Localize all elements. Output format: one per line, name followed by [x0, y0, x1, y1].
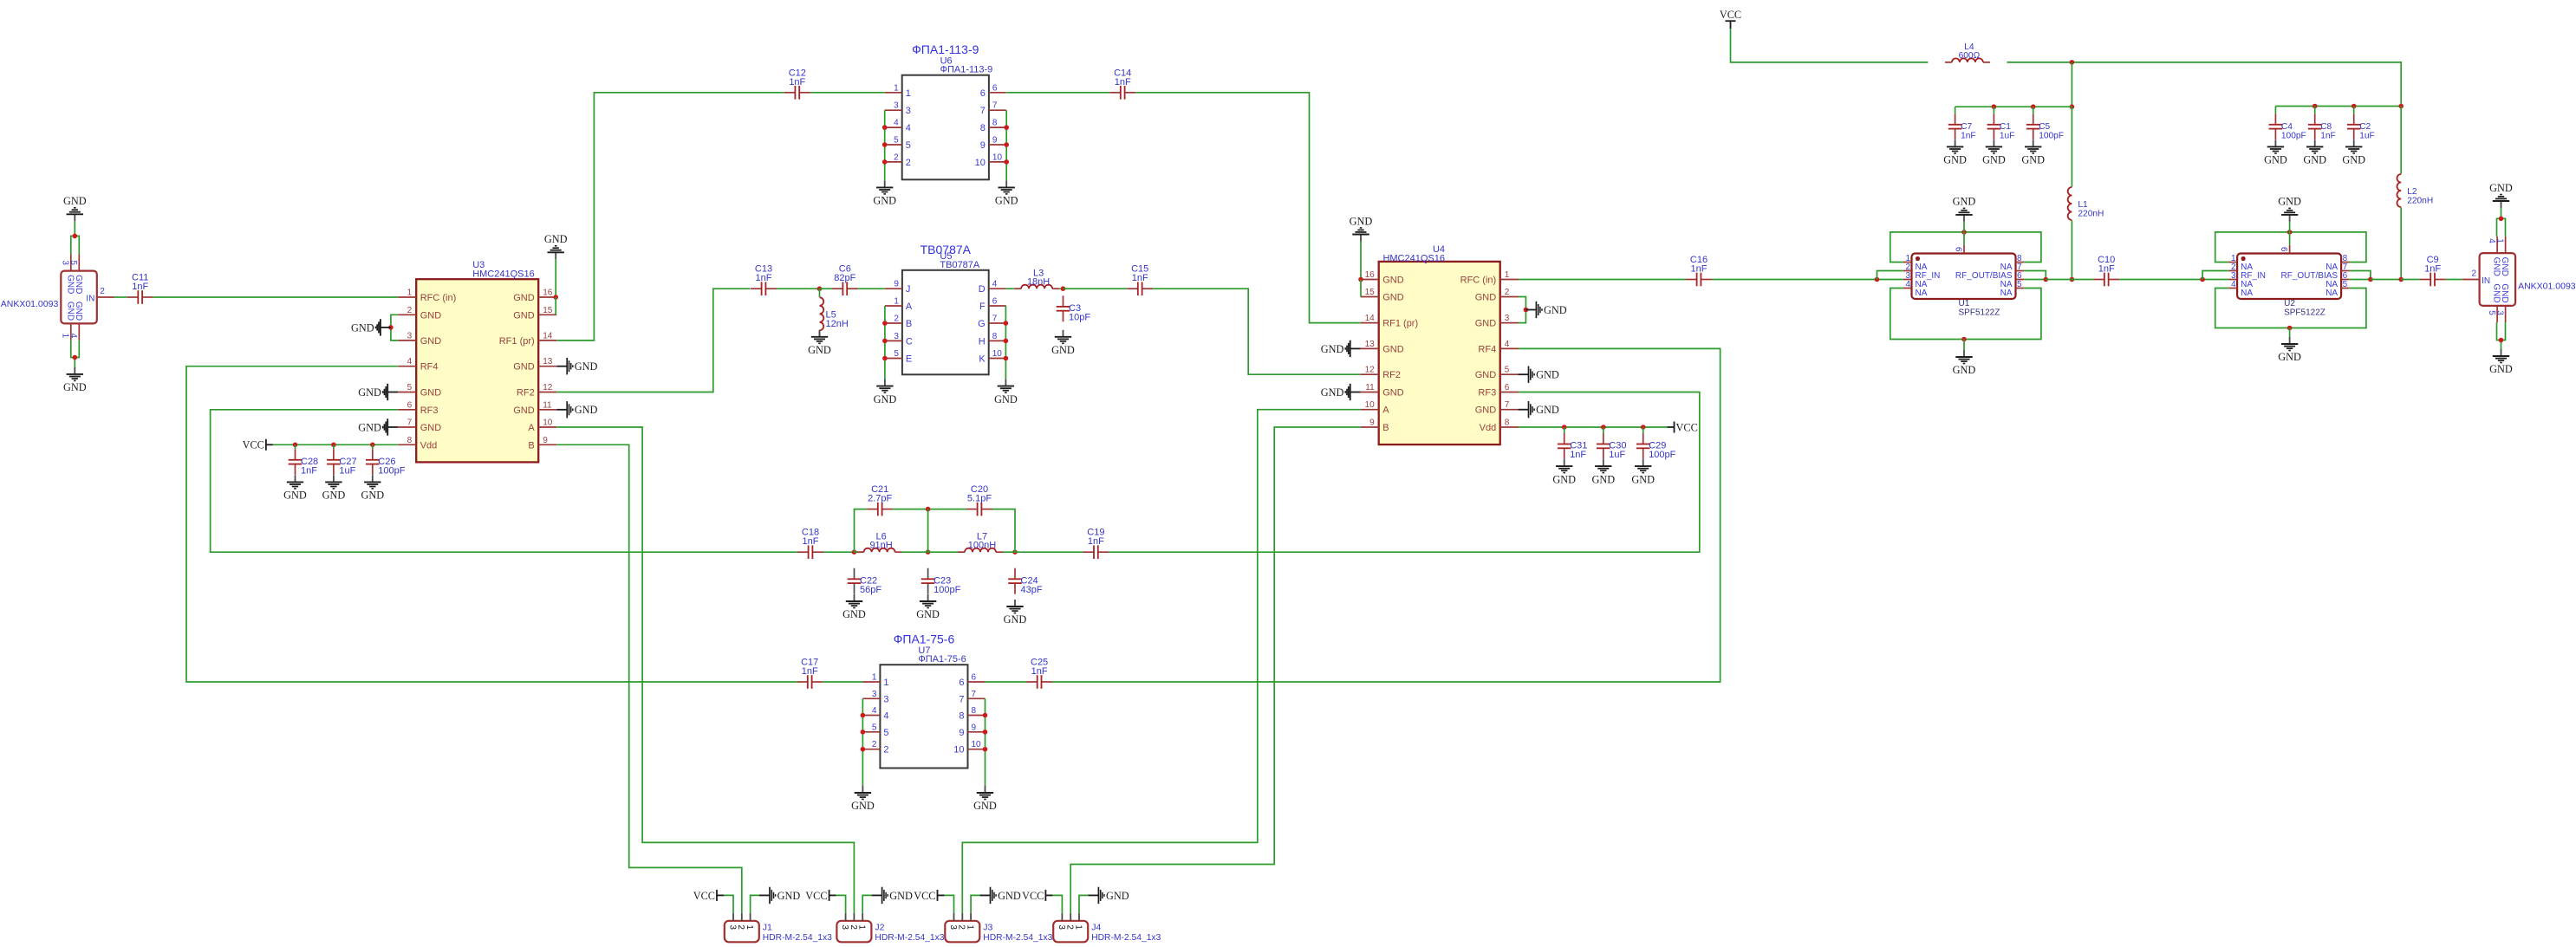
svg-text:11: 11 [1365, 383, 1375, 392]
junction U7 right tie [983, 730, 988, 735]
capacitor C4 [2269, 114, 2306, 140]
svg-text:10: 10 [975, 158, 986, 168]
wire U4 B to J4 pin2 [1070, 427, 1361, 913]
wire U6 left gnd tie [884, 110, 886, 180]
svg-text:K: K [979, 354, 986, 365]
IC U5 TB0787A [885, 243, 1006, 375]
svg-text:GND: GND [1106, 890, 1129, 902]
IC U3 HMC241QS16 [398, 260, 556, 462]
svg-text:1: 1 [906, 88, 911, 99]
svg-text:3: 3 [1057, 924, 1066, 930]
svg-text:1nF: 1nF [301, 465, 317, 476]
ground GND below C1 [1982, 139, 2006, 165]
svg-text:10: 10 [543, 418, 553, 428]
svg-text:NA: NA [2000, 289, 2013, 298]
capacitor C2 [2347, 114, 2375, 140]
svg-text:RF2: RF2 [1382, 370, 1401, 380]
ground GND at U3 pin13 [556, 358, 597, 374]
svg-text:GND: GND [998, 890, 1021, 902]
wire P1 bottom pins to gnd [71, 341, 75, 358]
svg-text:C1: C1 [2000, 122, 2011, 132]
svg-text:9: 9 [1955, 247, 1965, 252]
svg-text:GND: GND [283, 490, 307, 502]
ground U5 left GND [874, 379, 897, 405]
wire L2 tap to C9 [2401, 279, 2419, 281]
capacitor C5 [2026, 114, 2064, 140]
svg-text:NA: NA [1916, 289, 1928, 298]
svg-text:5: 5 [894, 349, 899, 359]
svg-text:1: 1 [894, 83, 899, 93]
power VCC VCC at U3 Vdd [243, 439, 273, 451]
wire VCC to U3 pin8 [273, 444, 398, 445]
wire U3 pin2-pin3 tie [391, 315, 398, 341]
ground U1 bottom GND [1953, 350, 1976, 376]
svg-text:6: 6 [972, 673, 977, 683]
svg-text:GND: GND [513, 293, 535, 303]
svg-text:GND: GND [973, 800, 997, 812]
ground GND below C4 [2264, 139, 2287, 165]
svg-text:VCC: VCC [243, 439, 264, 451]
svg-text:GND: GND [842, 608, 866, 620]
ground GND below C28 [283, 475, 307, 501]
svg-text:GND: GND [420, 336, 442, 347]
svg-text:5: 5 [894, 136, 899, 146]
junction L5 tap [817, 286, 823, 291]
svg-text:ФПА1-113-9: ФПА1-113-9 [912, 42, 979, 56]
svg-text:Vdd: Vdd [420, 440, 438, 451]
wire J4 pin3 to VCC [1052, 895, 1062, 913]
svg-text:C2: C2 [2359, 122, 2371, 132]
wire J3 pin1 to GND [971, 895, 979, 913]
wire P1 top pins to gnd [71, 236, 75, 254]
svg-text:82pF: 82pF [834, 273, 855, 283]
svg-text:RF2: RF2 [517, 388, 535, 399]
svg-text:15: 15 [1365, 288, 1376, 297]
wire C15 to U4 RF2 [1153, 289, 1361, 374]
svg-text:1nF: 1nF [132, 282, 148, 292]
capacitor C6 [832, 264, 858, 295]
wire C16 to U1 [1712, 279, 1903, 281]
svg-text:J4: J4 [1091, 923, 1101, 933]
svg-text:L2: L2 [2407, 187, 2417, 197]
capacitor C31 [1558, 433, 1587, 460]
svg-text:L1: L1 [2078, 200, 2088, 210]
svg-text:10: 10 [992, 349, 1003, 359]
wire top tap down [927, 509, 929, 553]
svg-text:NA: NA [2241, 289, 2253, 298]
svg-text:13: 13 [543, 357, 553, 366]
svg-text:GND: GND [65, 302, 75, 321]
capacitor C27 [327, 449, 356, 476]
svg-text:13: 13 [1365, 340, 1376, 349]
svg-text:10pF: 10pF [1069, 313, 1090, 323]
svg-text:1uF: 1uF [1609, 450, 1625, 460]
junction U7 left tie [861, 730, 866, 735]
svg-text:B: B [528, 440, 534, 451]
ground GND at J3 [980, 887, 1021, 904]
wire U2 pin1 loop [2215, 232, 2366, 263]
capacitor C23 [921, 568, 961, 595]
svg-text:2: 2 [736, 924, 745, 930]
svg-text:3: 3 [894, 101, 899, 111]
svg-text:3: 3 [727, 924, 737, 930]
wire U2 bottom gnd stem [2289, 328, 2291, 338]
junction U2 bottom tap [2287, 326, 2293, 331]
svg-text:3: 3 [2495, 310, 2504, 315]
wire U4 pin16 to GND [1360, 242, 1362, 280]
svg-text:GND: GND [420, 388, 442, 399]
capacitor C22 [848, 568, 882, 595]
svg-text:4: 4 [2487, 238, 2496, 243]
junction U2 top tap [2287, 230, 2293, 235]
svg-text:GND: GND [65, 275, 75, 294]
svg-text:1: 1 [872, 673, 877, 683]
svg-text:1nF: 1nF [802, 666, 818, 677]
svg-text:GND: GND [2492, 283, 2501, 302]
wire N3 to C19 [1015, 551, 1083, 553]
svg-text:ANKX01.0093: ANKX01.0093 [2518, 282, 2576, 292]
power VCC VCC at J1 [693, 890, 724, 902]
svg-text:3: 3 [1505, 314, 1510, 323]
ground P2 top GND [2489, 182, 2513, 208]
wire P2 top pin1 [2501, 208, 2506, 237]
wire C8 lead [2314, 107, 2316, 114]
svg-text:GND: GND [1475, 293, 1497, 303]
junction U2 out tie [2368, 277, 2373, 282]
svg-text:GND: GND [1953, 364, 1976, 376]
ground GND below C2 [2342, 139, 2365, 165]
svg-text:10: 10 [953, 745, 964, 756]
svg-text:GND: GND [1051, 344, 1075, 356]
svg-text:9: 9 [543, 436, 548, 445]
svg-text:GND: GND [2500, 283, 2509, 302]
svg-text:1: 1 [2495, 238, 2504, 243]
power VCC VCC at J2 [805, 890, 836, 902]
svg-text:8: 8 [1505, 418, 1510, 428]
svg-text:GND: GND [994, 393, 1018, 405]
wire U5 right gnd tie [1005, 306, 1006, 379]
svg-text:ANKX01.0093: ANKX01.0093 [1, 299, 59, 309]
wire U3 RF1 to C12 line [556, 93, 784, 341]
svg-text:3: 3 [948, 924, 958, 930]
svg-text:HDR-M-2.54_1x3: HDR-M-2.54_1x3 [983, 933, 1052, 943]
svg-text:1nF: 1nF [1961, 131, 1976, 140]
svg-text:9: 9 [1369, 418, 1375, 428]
svg-text:5: 5 [2017, 280, 2022, 289]
svg-text:GND: GND [2278, 196, 2301, 208]
svg-text:4: 4 [992, 280, 998, 289]
svg-text:A: A [906, 302, 913, 312]
capacitor C20 [966, 484, 992, 516]
inductor L2 [2397, 174, 2433, 207]
svg-text:ФПА1-75-6: ФПА1-75-6 [918, 654, 966, 665]
svg-text:5: 5 [407, 383, 413, 392]
svg-text:VCC: VCC [914, 890, 935, 902]
svg-text:GND: GND [63, 195, 87, 207]
wire C29 lead [1643, 427, 1644, 433]
wire U1 pin7-pin6 tie [2024, 271, 2046, 280]
ground GND below C8 [2303, 139, 2326, 165]
wire P1 bottom pin4 [75, 341, 79, 367]
ground U7 right GND [973, 786, 997, 812]
svg-text:VCC: VCC [805, 890, 827, 902]
wire C2 lead [2353, 107, 2355, 114]
svg-text:GND: GND [1321, 343, 1344, 355]
wire C11 to U3 pin1 [153, 296, 399, 298]
junction C29 tap [1641, 425, 1646, 430]
svg-text:5.1pF: 5.1pF [967, 494, 992, 504]
junction L2 top tap [2398, 104, 2404, 109]
svg-text:1uF: 1uF [2359, 131, 2375, 140]
svg-text:1nF: 1nF [1031, 666, 1048, 677]
junction U5 left tie [882, 356, 888, 361]
capacitor C8 [2308, 114, 2336, 140]
svg-text:1: 1 [857, 924, 867, 930]
svg-text:1: 1 [61, 334, 70, 339]
junction C27 tap [331, 443, 336, 448]
svg-text:HMC241QS16: HMC241QS16 [1382, 254, 1445, 264]
svg-text:NA: NA [2326, 289, 2338, 298]
junction C31 tap [1562, 425, 1567, 430]
svg-text:GND: GND [2492, 257, 2501, 276]
wire P2 bottom pin3 [2501, 322, 2506, 349]
wire U5 left gnd tie [884, 306, 886, 379]
svg-text:3: 3 [61, 260, 70, 265]
svg-text:VCC: VCC [1676, 421, 1698, 433]
svg-text:4: 4 [883, 711, 888, 722]
junction U6 left tie [882, 142, 888, 147]
svg-text:1: 1 [407, 289, 413, 298]
wire C26 lead [372, 444, 374, 449]
wire C17 to U7 pin1 [823, 681, 862, 683]
junction C28 tap [293, 443, 298, 448]
junction U5 right tie [1004, 356, 1009, 361]
svg-text:5: 5 [906, 140, 911, 151]
capacitor C25 [1026, 658, 1052, 689]
svg-text:2.7pF: 2.7pF [868, 494, 892, 504]
junction L2 bottom [2398, 277, 2404, 282]
svg-text:2: 2 [100, 287, 105, 296]
svg-text:7: 7 [992, 101, 998, 111]
ground GND below C26 [361, 475, 384, 501]
svg-text:B: B [1382, 423, 1389, 433]
svg-text:TB0787A: TB0787A [940, 260, 980, 270]
wire U3 RF3 loop to C18 line [211, 410, 797, 552]
svg-text:GND: GND [2264, 154, 2287, 166]
wire U3 RF2 to C13 line [556, 289, 750, 392]
junction U5 right tie [1004, 321, 1009, 326]
svg-text:3: 3 [407, 331, 413, 341]
svg-text:GND: GND [1475, 370, 1497, 380]
svg-text:GND: GND [1544, 304, 1567, 316]
svg-text:1nF: 1nF [789, 77, 805, 88]
wire U5 pinD to L3 [1005, 288, 1014, 289]
capacitor C30 [1597, 433, 1626, 460]
svg-text:GND: GND [995, 195, 1018, 207]
svg-text:J2: J2 [875, 923, 884, 933]
connector J4 [1053, 913, 1161, 943]
svg-text:5: 5 [1505, 366, 1510, 375]
wire J2 pin3 to VCC [836, 895, 846, 913]
wire U3 pin15 up [555, 297, 556, 315]
junction C26 tap [370, 443, 375, 448]
capacitor C15 [1127, 264, 1153, 295]
svg-text:GND: GND [513, 310, 535, 321]
svg-text:GND: GND [351, 321, 374, 334]
ground U2 bottom GND [2278, 337, 2301, 363]
svg-text:1nF: 1nF [1115, 77, 1131, 88]
junction U6 left tie [882, 159, 888, 165]
wire C1 lead [1993, 107, 1994, 114]
capacitor C13 [751, 264, 777, 295]
svg-text:7: 7 [980, 106, 986, 116]
svg-text:GND: GND [2489, 363, 2513, 375]
IC U6 FPA1-113-9 [885, 42, 1006, 179]
junction P1 bottom [73, 355, 78, 360]
svg-text:SPF5122Z: SPF5122Z [2284, 308, 2326, 318]
svg-text:HDR-M-2.54_1x3: HDR-M-2.54_1x3 [1091, 933, 1161, 943]
wire U3 B to J1 pin2 [556, 444, 742, 913]
svg-text:1uF: 1uF [339, 465, 355, 476]
svg-text:GND: GND [889, 890, 913, 902]
wire C31 lead [1564, 427, 1565, 433]
svg-text:220nH: 220nH [2407, 197, 2433, 206]
svg-text:G: G [978, 319, 986, 329]
svg-text:8: 8 [992, 119, 998, 128]
capacitor C26 [366, 449, 406, 476]
svg-text:6: 6 [1505, 383, 1510, 392]
svg-text:RF4: RF4 [420, 362, 439, 373]
svg-text:1: 1 [966, 924, 975, 930]
svg-text:4: 4 [1505, 340, 1510, 349]
svg-text:C7: C7 [1961, 122, 1972, 132]
svg-text:GND: GND [916, 608, 940, 620]
junction U5 left tie [882, 321, 888, 326]
svg-text:15: 15 [543, 306, 553, 315]
ground P1 top GND [63, 195, 87, 221]
wire L4 to corner [2007, 62, 2401, 107]
ground GND at U3 pin2/3 [351, 319, 391, 335]
svg-text:H: H [979, 336, 986, 347]
svg-text:8: 8 [959, 711, 964, 722]
capacitor C21 [867, 484, 893, 516]
ground GND below C22 [842, 594, 866, 620]
svg-text:18nH: 18nH [1027, 277, 1050, 288]
svg-text:9: 9 [959, 728, 964, 738]
svg-text:GND: GND [873, 195, 896, 207]
wire C14 to U4 RF1 [1135, 93, 1361, 323]
svg-text:1: 1 [894, 297, 899, 307]
inductor L6 [857, 532, 902, 553]
ground U7 left GND [851, 786, 875, 812]
ground GND at U3 pin7 [358, 418, 398, 435]
wire C30 lead [1603, 427, 1604, 433]
svg-text:2: 2 [894, 315, 899, 324]
capacitor C16 [1686, 255, 1712, 286]
svg-text:1nF: 1nF [756, 273, 772, 283]
svg-text:GND: GND [63, 381, 87, 393]
svg-text:C8: C8 [2320, 122, 2332, 132]
svg-text:HDR-M-2.54_1x3: HDR-M-2.54_1x3 [763, 933, 832, 943]
ground GND at J4 [1088, 887, 1129, 904]
junction C8 tap [2313, 104, 2318, 109]
svg-text:9: 9 [972, 723, 977, 732]
wire U4 A to J3 pin2 [962, 410, 1360, 913]
capacitor C19 [1083, 528, 1109, 559]
svg-text:5: 5 [68, 260, 78, 265]
svg-text:5: 5 [2343, 280, 2348, 289]
svg-text:GND: GND [1982, 154, 2006, 166]
wire C7 lead [1955, 107, 1956, 114]
junction top branch tap [926, 507, 931, 512]
junction U1 in tap [1875, 277, 1880, 282]
ground GND at U3 pin11 [556, 401, 597, 418]
capacitor C10 [2093, 255, 2119, 286]
svg-text:3: 3 [872, 690, 877, 699]
connector J3 [945, 913, 1052, 943]
wire L2 vertical top [2400, 107, 2402, 174]
junction N3 [1012, 549, 1018, 555]
svg-text:12nH: 12nH [826, 319, 849, 329]
svg-text:F: F [979, 302, 986, 312]
capacitor C7 [1948, 114, 1976, 140]
wire junction to C6 [820, 288, 832, 289]
wire U2 in elbow [2202, 271, 2228, 280]
wire U1 in elbow [1877, 271, 1903, 280]
svg-text:GND: GND [2342, 154, 2365, 166]
junction C30 tap [1601, 425, 1606, 430]
svg-text:6: 6 [407, 400, 413, 410]
ground U1 top GND [1953, 196, 1976, 222]
svg-text:5: 5 [872, 723, 877, 732]
svg-text:2: 2 [957, 924, 966, 930]
wire C5 lead [2033, 107, 2034, 114]
svg-text:RF1 (pr): RF1 (pr) [1382, 319, 1418, 329]
connector P2 ANKX01.0093 [2462, 237, 2576, 323]
wire U1 pin4 loop [1890, 289, 2041, 340]
wire VCC down to rail [1731, 29, 1929, 62]
svg-text:HDR-M-2.54_1x3: HDR-M-2.54_1x3 [875, 933, 944, 943]
junction C2 tap [2352, 104, 2357, 109]
connector J1 [725, 913, 832, 943]
svg-text:3: 3 [883, 694, 888, 704]
svg-text:2: 2 [407, 306, 413, 315]
svg-text:2: 2 [872, 740, 877, 749]
svg-text:GND: GND [2021, 154, 2045, 166]
ground U5 right GND [994, 379, 1018, 405]
junction N1 [852, 549, 857, 555]
svg-text:220nH: 220nH [2078, 210, 2104, 219]
wire U4 Vdd rail [1519, 426, 1668, 428]
ground GND at U4 pin5 [1519, 366, 1559, 383]
svg-text:7: 7 [407, 418, 413, 428]
ground U2 top GND [2278, 196, 2301, 222]
junction U1 bottom tap [1961, 337, 1967, 342]
inductor L3 [1014, 269, 1059, 289]
svg-text:10: 10 [992, 152, 1003, 162]
svg-text:56pF: 56pF [860, 585, 881, 595]
svg-text:A: A [1382, 405, 1389, 416]
wire L6 to N2 [902, 551, 928, 553]
svg-text:GND: GND [1004, 613, 1027, 626]
wire N1 to L6 [855, 551, 864, 553]
wire L1 to main line [2071, 221, 2072, 280]
svg-text:5: 5 [883, 728, 888, 738]
capacitor C14 [1109, 68, 1135, 99]
svg-text:GND: GND [2303, 154, 2326, 166]
wire C19 to U4 RF3 [1109, 392, 1699, 553]
svg-text:4: 4 [1905, 280, 1910, 289]
